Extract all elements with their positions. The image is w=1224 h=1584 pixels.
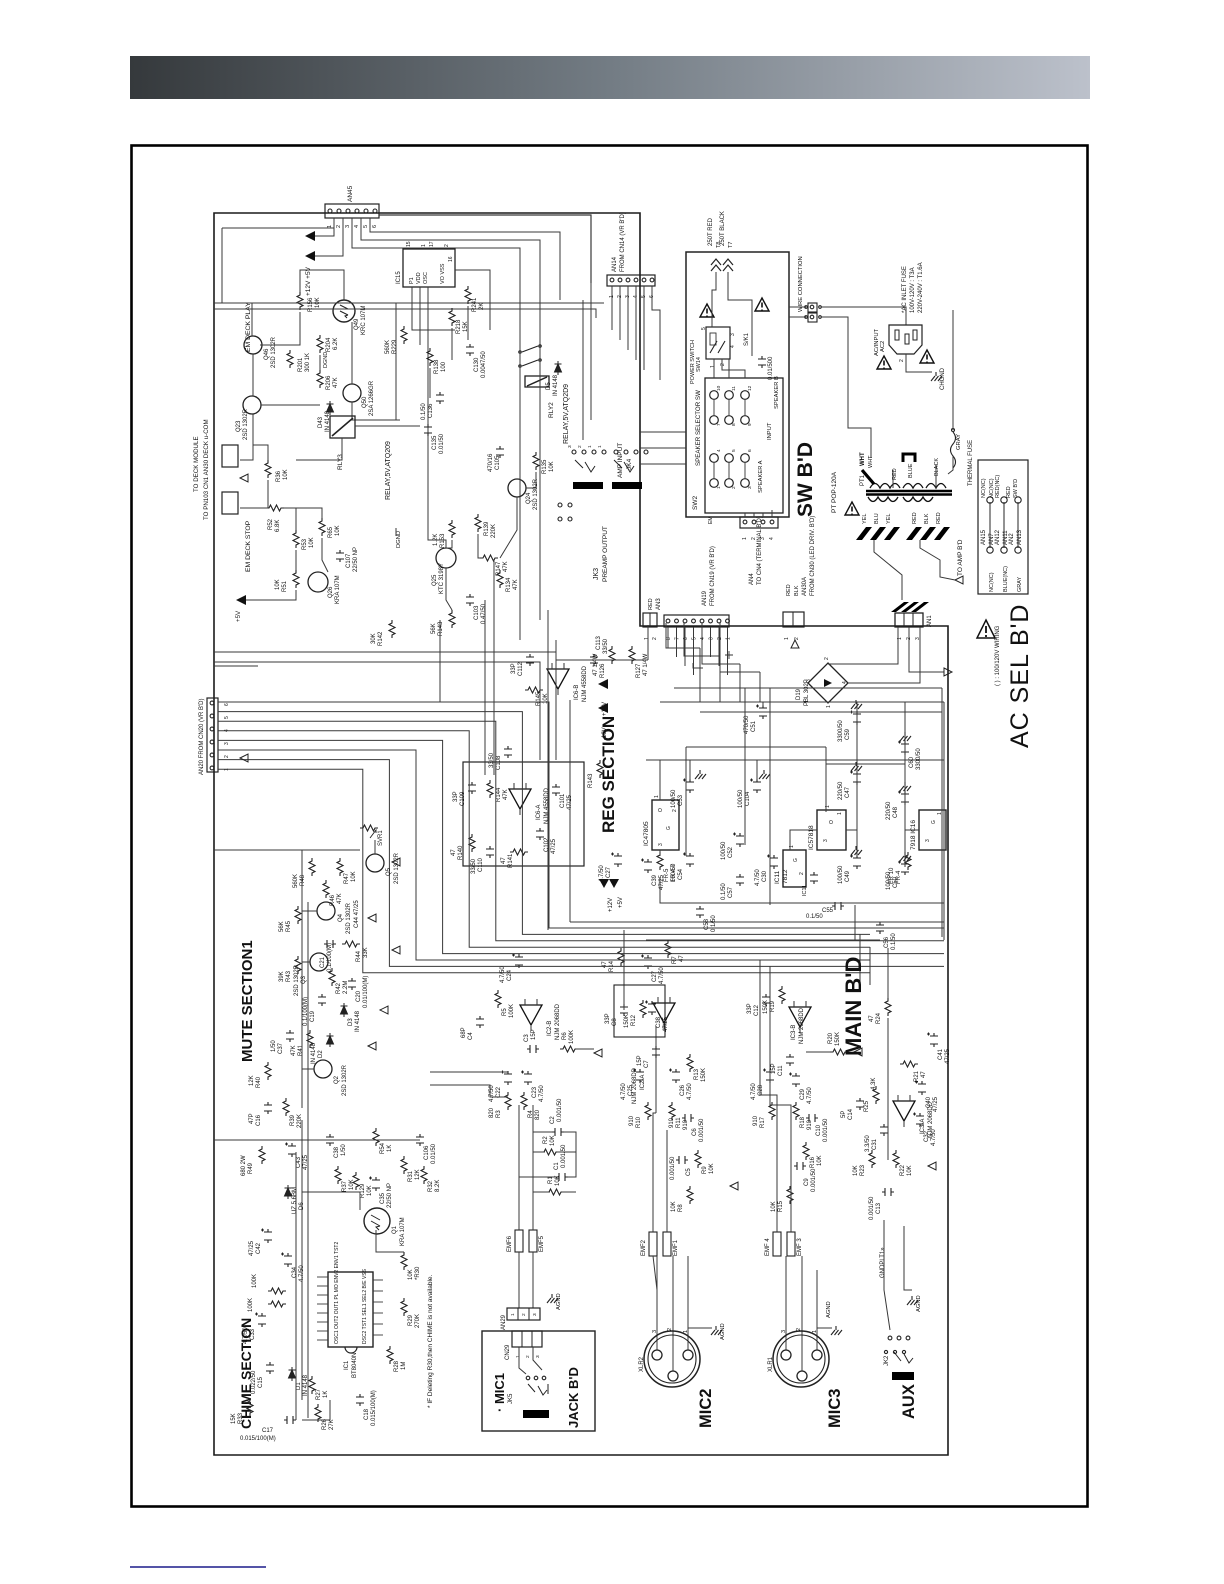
- svg-text:C47: C47: [845, 786, 851, 798]
- svg-text:1K: 1K: [323, 1391, 329, 1398]
- svg-text:3300/50: 3300/50: [916, 748, 922, 770]
- svg-text:0.022/50: 0.022/50: [251, 1370, 257, 1394]
- regulator IC11 7812: [783, 850, 806, 887]
- svg-text:C43: C43: [296, 1156, 302, 1168]
- power rail +12V +5V arrows: [305, 231, 315, 241]
- svg-text:R15: R15: [778, 1200, 784, 1212]
- transistor Q26: [308, 572, 328, 592]
- SW B'D board outline: [686, 252, 789, 517]
- resistor R40: [265, 1062, 271, 1080]
- svg-text:C13: C13: [876, 1202, 882, 1214]
- svg-text:R32: R32: [428, 1180, 434, 1192]
- wire: [582, 300, 584, 440]
- resistor R141: [510, 849, 528, 855]
- svg-text:AN19: AN19: [702, 590, 708, 606]
- wire mute bus2: [307, 902, 309, 1418]
- svg-text:G: G: [931, 820, 937, 824]
- transistor Q5: [366, 854, 384, 872]
- capacitor C50: [898, 861, 909, 876]
- svg-text:-18V: -18V: [602, 727, 608, 740]
- warning triangle: [845, 502, 859, 515]
- resistor R26: [315, 1404, 321, 1422]
- svg-text:IC11: IC11: [774, 870, 781, 884]
- wire: [652, 286, 660, 380]
- svg-text:IN 4148: IN 4148: [311, 1042, 317, 1064]
- resistor R147: [480, 555, 498, 561]
- wire: [446, 540, 452, 548]
- reg grid v4: [856, 712, 858, 856]
- connector XLR2: [644, 1331, 700, 1387]
- svg-text:0.01/50: 0.01/50: [431, 1143, 437, 1164]
- wire long v2: [555, 640, 557, 760]
- resistor R27: [309, 1376, 315, 1394]
- svg-text:C27: C27: [606, 866, 612, 878]
- svg-text:C19: C19: [310, 1010, 316, 1022]
- svg-text:C37: C37: [278, 1042, 284, 1054]
- connector AN19: [664, 615, 729, 627]
- wire bundle drop2: [655, 1026, 657, 1113]
- wire: [556, 659, 648, 661]
- svg-text:C103: C103: [474, 605, 480, 620]
- wire: [702, 623, 740, 664]
- svg-text:4.7/50: 4.7/50: [751, 1083, 757, 1100]
- svg-text:R49: R49: [248, 1162, 254, 1174]
- transistor Q46: [244, 336, 262, 354]
- svg-text:10K: 10K: [549, 461, 555, 472]
- svg-text:C32: C32: [924, 1130, 930, 1142]
- connector AN20: [207, 698, 218, 772]
- svg-text:R12: R12: [631, 1014, 637, 1026]
- svg-text:100/50: 100/50: [671, 863, 677, 882]
- wire: [532, 1252, 534, 1308]
- transistor Q2: [314, 1060, 332, 1078]
- svg-text:R47: R47: [344, 872, 350, 884]
- svg-text:KRA 107M: KRA 107M: [335, 575, 341, 604]
- svg-text:C49: C49: [845, 870, 851, 882]
- svg-text:47: 47: [679, 955, 685, 962]
- emi filter EMF1: [663, 1232, 671, 1256]
- svg-text:IC57818: IC57818: [808, 825, 815, 850]
- svg-text:10K: 10K: [550, 1135, 556, 1146]
- wire: [351, 322, 353, 384]
- svg-text:JK4: JK4: [626, 458, 633, 470]
- jack JK2: [892, 1372, 914, 1380]
- svg-text:2SD 1302R: 2SD 1302R: [342, 1064, 348, 1096]
- resistor 100K a: [268, 1288, 286, 1294]
- wire: [526, 472, 536, 488]
- wire: [948, 456, 953, 474]
- link AN7-AN15: [989, 502, 991, 548]
- svg-text:0.1/50: 0.1/50: [806, 914, 823, 920]
- reg wire13: [646, 939, 880, 941]
- resistor R14: [618, 948, 624, 966]
- reg grid v7: [685, 747, 687, 856]
- svg-text:XLR1: XLR1: [768, 1356, 774, 1372]
- svg-text:C51: C51: [751, 720, 757, 732]
- capacitor C32: [913, 1113, 924, 1128]
- svg-text:15: 15: [406, 241, 412, 247]
- resistor R48: [309, 858, 315, 876]
- svg-text:R156: R156: [308, 297, 314, 312]
- wire bundle drop1: [623, 930, 625, 995]
- svg-text:C50: C50: [893, 876, 899, 888]
- svg-text:RED: RED: [936, 512, 942, 524]
- svg-text:C26: C26: [680, 1084, 686, 1096]
- capacitor C24: [512, 954, 523, 969]
- heavy leads into AN1: [891, 602, 929, 612]
- svg-text:3: 3: [709, 637, 715, 640]
- svg-text:15P: 15P: [637, 1055, 643, 1066]
- svg-text:C59: C59: [845, 728, 851, 740]
- capacitor C51: [756, 705, 767, 720]
- svg-text:27K: 27K: [329, 1419, 335, 1430]
- svg-text:MAIN B'D: MAIN B'D: [841, 957, 866, 1056]
- wire: [770, 1062, 791, 1130]
- resistor R18: [793, 1102, 799, 1120]
- reg wire8: [846, 830, 857, 856]
- resistor R139: [475, 514, 481, 532]
- svg-text:5: 5: [692, 637, 698, 640]
- wire: [419, 287, 421, 345]
- capacitor C40: [915, 1081, 926, 1096]
- svg-text:47/25: 47/25: [663, 1016, 669, 1032]
- resistor R29: [401, 1298, 407, 1316]
- jack JK4 contact pins: [572, 450, 576, 454]
- svg-text:R206: R206: [326, 375, 332, 390]
- wire: [652, 1130, 654, 1232]
- open arrow: [944, 668, 952, 676]
- capacitor C17: [284, 1416, 296, 1424]
- svg-text:MIC2: MIC2: [697, 1389, 715, 1428]
- svg-text:12: 12: [747, 385, 753, 391]
- svg-text:C35: C35: [380, 1192, 386, 1204]
- svg-text:+12V: +12V: [608, 898, 614, 912]
- svg-text:R5: R5: [502, 1008, 508, 1016]
- wire: [451, 328, 453, 360]
- svg-text:4.7/50: 4.7/50: [659, 967, 665, 984]
- wire: [214, 849, 302, 851]
- reg wire v3: [904, 702, 906, 742]
- ground symbols reg: [695, 770, 706, 779]
- reg wire v1: [762, 702, 764, 706]
- resistor R15: [787, 1186, 793, 1204]
- wire long v6: [519, 330, 521, 640]
- svg-text:100K: 100K: [509, 1004, 515, 1018]
- svg-text:NJM 2068DD: NJM 2068DD: [555, 1003, 561, 1040]
- capacitor C29: [789, 1073, 800, 1088]
- svg-text:R134: R134: [506, 577, 512, 592]
- resistor R30: [401, 1252, 407, 1270]
- svg-text:AN29: AN29: [501, 1314, 507, 1330]
- wire: [428, 287, 446, 548]
- svg-text:Q23: Q23: [236, 420, 242, 432]
- resistor R126: [609, 646, 615, 664]
- svg-text:R204: R204: [326, 337, 332, 352]
- svg-text:100/50: 100/50: [671, 789, 677, 808]
- wire: [647, 625, 649, 660]
- svg-text:33/50: 33/50: [603, 638, 609, 654]
- svg-text:C27: C27: [652, 970, 658, 982]
- svg-text:YEL: YEL: [886, 514, 892, 524]
- svg-text:FROM CN30 (LED DRIV. B'D): FROM CN30 (LED DRIV. B'D): [810, 516, 816, 596]
- reg bus wire: [660, 701, 944, 703]
- resistor R21: [900, 1061, 918, 1067]
- svg-text:3: 3: [781, 1330, 787, 1333]
- svg-text:220K: 220K: [491, 524, 497, 538]
- capacitor C53: [683, 779, 694, 794]
- wire: [322, 538, 328, 572]
- outer schematic border: [132, 146, 1088, 1507]
- bridge rectifier D19: [808, 663, 848, 703]
- svg-text:2SD 1302R: 2SD 1302R: [394, 852, 400, 884]
- resistor R37: [335, 1166, 341, 1184]
- winding lead WHT: [862, 470, 874, 484]
- connector AN29: [507, 1308, 540, 1320]
- svg-text:BLUE: BLUE: [908, 463, 914, 478]
- svg-text:CN29: CN29: [505, 1344, 511, 1360]
- svg-text:R33: R33: [238, 1412, 244, 1424]
- svg-text:3: 3: [730, 333, 736, 336]
- svg-text:JK2: JK2: [884, 1355, 890, 1366]
- svg-text:C10: C10: [816, 1124, 822, 1136]
- wire: [821, 317, 871, 458]
- svg-text:33P: 33P: [605, 1013, 611, 1024]
- svg-text:4.7/50: 4.7/50: [621, 1083, 627, 1100]
- capacitor C9: [794, 1162, 806, 1170]
- svg-text:220/50: 220/50: [838, 781, 844, 800]
- wire: [640, 431, 686, 433]
- svg-text:R140: R140: [458, 845, 464, 860]
- resistor R4: [521, 1092, 527, 1110]
- svg-text:R7: R7: [672, 956, 678, 964]
- svg-text:0.001/50: 0.001/50: [561, 1144, 567, 1168]
- svg-text:RED(NC): RED(NC): [995, 475, 1001, 498]
- wire chime bus2: [295, 1152, 297, 1420]
- wire: [952, 310, 954, 430]
- wire: [874, 540, 902, 600]
- svg-text:R21: R21: [914, 1070, 920, 1082]
- svg-text:EMF 3: EMF 3: [797, 1238, 803, 1256]
- svg-text:C15: C15: [258, 1376, 264, 1388]
- wire: [260, 344, 300, 346]
- svg-text:AN4: AN4: [749, 573, 755, 585]
- capacitor C33: [255, 1313, 266, 1328]
- svg-text:C136: C136: [428, 403, 434, 418]
- wire long v7: [539, 350, 541, 620]
- switch SW14 POWER SWITCH: [706, 327, 730, 359]
- svg-text:3: 3: [806, 679, 812, 682]
- svg-text:47 1/4W: 47 1/4W: [593, 653, 599, 676]
- wire: [240, 507, 268, 509]
- wire: [884, 1260, 890, 1330]
- svg-text:R16: R16: [810, 1156, 816, 1168]
- svg-text:R53: R53: [302, 538, 308, 550]
- svg-text:4.7/50: 4.7/50: [931, 1129, 937, 1146]
- svg-text:C38: C38: [334, 1146, 340, 1158]
- svg-text:R52: R52: [268, 518, 274, 530]
- svg-text:R127: R127: [636, 663, 642, 678]
- capacitor C135: [424, 424, 432, 436]
- resistor R134: [497, 570, 503, 588]
- svg-text:1: 1: [421, 244, 427, 247]
- wire long v3: [547, 610, 549, 930]
- capacitor C23: [521, 1071, 532, 1086]
- svg-text:C113: C113: [596, 635, 602, 650]
- capacitor C27: [611, 853, 622, 868]
- resistor R49: [259, 1146, 265, 1164]
- svg-text:GRAY: GRAY: [1017, 576, 1023, 592]
- resistor R11: [669, 1102, 675, 1120]
- emi filter EMF5: [529, 1230, 537, 1252]
- wire: [315, 218, 343, 256]
- wire: [319, 355, 321, 370]
- IC1 pin stubs: [317, 1276, 328, 1278]
- svg-text:C110: C110: [478, 857, 484, 872]
- svg-text:O: O: [658, 808, 664, 812]
- svg-text:5P: 5P: [841, 1111, 847, 1118]
- svg-text:10K: 10K: [817, 1155, 823, 1166]
- svg-text:C57: C57: [728, 886, 734, 898]
- svg-text:910: 910: [753, 1115, 759, 1126]
- resistor R32: [421, 1166, 427, 1184]
- svg-text:33P: 33P: [747, 1003, 753, 1014]
- capacitor C13: [882, 1188, 894, 1196]
- connector to deck module: [222, 445, 238, 467]
- svg-text:560K: 560K: [293, 874, 299, 888]
- svg-text:BLK: BLK: [794, 585, 800, 596]
- wire: [640, 447, 686, 449]
- svg-text:0.1/50: 0.1/50: [421, 403, 427, 420]
- footer blue rule: [130, 1566, 266, 1568]
- capacitor C42: [261, 1229, 272, 1244]
- wire: [429, 368, 431, 398]
- wire: [739, 664, 741, 702]
- fuse resistor FR-5: [657, 852, 663, 870]
- svg-text:Q4: Q4: [338, 913, 344, 922]
- link AN13-AN2: [1017, 502, 1019, 548]
- wire: [666, 1130, 668, 1232]
- svg-text:10: 10: [716, 385, 722, 391]
- resistor R201: [287, 350, 293, 368]
- svg-text:6.8K: 6.8K: [275, 520, 281, 532]
- svg-text:0.01/100(M): 0.01/100(M): [363, 976, 369, 1008]
- svg-text:12K: 12K: [415, 1169, 421, 1180]
- wire: [640, 463, 686, 465]
- diode D3: [341, 1003, 348, 1017]
- svg-text:4: 4: [700, 637, 706, 640]
- inductor T8 T7: [711, 259, 733, 271]
- svg-text:RLY3: RLY3: [337, 454, 344, 470]
- capacitor C4: [476, 1016, 484, 1028]
- svg-text:R25: R25: [864, 1100, 870, 1112]
- svg-text:DGND: DGND: [323, 352, 329, 368]
- wire: [533, 1347, 542, 1370]
- connector XLR1: [773, 1331, 829, 1387]
- connector CN29: [512, 1331, 542, 1347]
- svg-text:R45: R45: [286, 920, 292, 932]
- svg-text:+5V: +5V: [235, 610, 242, 622]
- wire: [261, 312, 300, 345]
- resistor R2: [541, 1149, 559, 1155]
- svg-text:C28: C28: [758, 1084, 764, 1096]
- resistor R129: [353, 1172, 359, 1190]
- svg-text:47/25: 47/25: [551, 838, 557, 854]
- wire: [759, 672, 761, 702]
- svg-text:2: 2: [525, 1355, 531, 1358]
- capacitor C14: [856, 1098, 864, 1110]
- svg-text:3300/50: 3300/50: [838, 720, 844, 742]
- wire: [684, 623, 720, 656]
- AC inlet AC2: [889, 325, 922, 354]
- svg-text:( ) : 100/120V WIRING: ( ) : 100/120V WIRING: [995, 625, 1001, 686]
- connector AN14: [607, 275, 655, 286]
- svg-text:3: 3: [532, 1313, 538, 1316]
- svg-text:47: 47: [921, 1071, 927, 1078]
- wire: [519, 1347, 526, 1374]
- svg-text:4.7/50: 4.7/50: [539, 1085, 545, 1102]
- svg-text:820: 820: [489, 1107, 495, 1118]
- svg-text:C25: C25: [628, 1084, 634, 1096]
- svg-text:C106: C106: [424, 1145, 430, 1160]
- svg-text:6: 6: [224, 703, 230, 706]
- op-amp IC6-A: [509, 783, 531, 815]
- capacitor C2: [552, 1128, 564, 1136]
- svg-text:YEL: YEL: [862, 514, 868, 524]
- capacitor C12: [762, 994, 770, 1006]
- jack JK5: [523, 1410, 549, 1418]
- svg-text:AN13: AN13: [1017, 529, 1023, 545]
- wire: [500, 497, 517, 558]
- transistor Q1: [364, 1208, 390, 1234]
- resistor R51: [293, 570, 299, 588]
- svg-text:1K: 1K: [387, 1145, 393, 1152]
- reg wire10: [659, 850, 661, 856]
- svg-text:C48: C48: [893, 806, 899, 818]
- open arrows mute: [368, 858, 400, 1050]
- svg-text:1: 1: [826, 705, 832, 708]
- reg wire11: [660, 878, 944, 903]
- svg-text:0.015/100(M): 0.015/100(M): [240, 1436, 276, 1442]
- wire: [355, 425, 420, 427]
- wire: [722, 359, 745, 378]
- wire: [744, 513, 746, 517]
- svg-text:C54: C54: [678, 868, 684, 880]
- svg-text:AN2: AN2: [1009, 533, 1015, 545]
- wire: [412, 287, 455, 330]
- capacitor C38a: [645, 1001, 656, 1016]
- svg-text:R19: R19: [770, 1000, 776, 1012]
- svg-text:NJM 2068DD: NJM 2068DD: [799, 1007, 805, 1044]
- svg-text:R135: R135: [542, 459, 548, 474]
- svg-text:2: 2: [720, 363, 726, 366]
- svg-text:39K: 39K: [279, 971, 285, 982]
- resistor R156: [297, 292, 303, 310]
- resistor R10: [645, 1102, 651, 1120]
- svg-text:4.7/50: 4.7/50: [500, 966, 506, 983]
- svg-text:1: 1: [837, 812, 843, 815]
- svg-text:4.7/50: 4.7/50: [755, 869, 761, 886]
- svg-text:30K: 30K: [371, 633, 377, 644]
- wire: [222, 227, 334, 229]
- svg-text:1: 1: [515, 1355, 521, 1358]
- svg-text:C108: C108: [496, 755, 502, 770]
- svg-text:56K: 56K: [279, 921, 285, 932]
- capacitor C106: [416, 1134, 424, 1146]
- capacitor C112: [526, 654, 534, 666]
- svg-text:0.001/50: 0.001/50: [811, 1168, 817, 1192]
- svg-text:R43: R43: [286, 970, 292, 982]
- svg-text:PT1: PT1: [860, 474, 866, 486]
